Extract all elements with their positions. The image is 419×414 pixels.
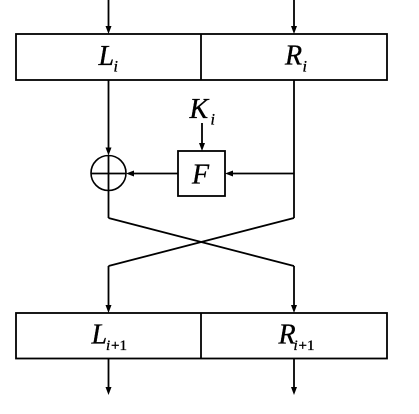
- wire: top input to Li: [108, 0, 110, 27]
- label Ki: [189, 94, 215, 129]
- arrowhead output left: [106, 387, 112, 395]
- arrowhead into XOR right: [126, 171, 134, 177]
- wire: F output to XOR: [134, 173, 178, 175]
- wire: Ri branch into F: [233, 173, 294, 175]
- XOR vertical cross stroke and wire continuing down to bend: [108, 156, 110, 219]
- arrowhead into Li+1 box: [106, 305, 112, 313]
- wire: Ri down to crossover bend: [293, 80, 295, 218]
- svg-text:L: L: [98, 41, 115, 72]
- wire: crossover diagonal left-to-right: [109, 218, 295, 266]
- svg-text:i: i: [303, 59, 307, 76]
- wire: down into Ri+1: [293, 266, 295, 306]
- divider between Li+1 and Ri+1: [200, 313, 202, 359]
- arrowhead into Ri+1 box: [291, 305, 297, 313]
- svg-text:L: L: [91, 320, 108, 351]
- box F (round function): [178, 151, 225, 196]
- svg-text:K: K: [189, 94, 210, 125]
- wire: Ki down to F: [201, 123, 203, 144]
- svg-text:i: i: [211, 112, 215, 129]
- wire: crossover diagonal right-to-left: [109, 218, 295, 266]
- label Li: [98, 41, 118, 76]
- divider between Li and Ri: [200, 34, 202, 80]
- wire: top input to Ri: [293, 0, 295, 27]
- XOR gate circle: [91, 156, 126, 191]
- arrowhead into XOR top: [106, 148, 112, 156]
- label Li+1: [91, 320, 127, 355]
- box Li/Ri register: [16, 34, 387, 80]
- XOR horizontal cross stroke: [91, 173, 126, 175]
- svg-text:F: F: [191, 160, 210, 191]
- wire: Li+1 output: [108, 359, 110, 389]
- label Ri: [284, 41, 307, 76]
- arrowhead into Ri box: [291, 26, 297, 34]
- arrowhead into F box top: [199, 143, 205, 151]
- arrowhead output right: [291, 387, 297, 395]
- wire: Ri+1 output: [293, 359, 295, 389]
- svg-text:i: i: [106, 338, 110, 354]
- wire: Li down to XOR: [108, 80, 110, 149]
- label Ri+1: [278, 320, 315, 355]
- svg-text:i: i: [294, 338, 298, 354]
- wire: down into Li+1: [108, 266, 110, 306]
- svg-text:i: i: [114, 59, 118, 76]
- svg-text:R: R: [284, 41, 302, 72]
- box Li+1/Ri+1 register: [16, 313, 387, 359]
- arrowhead into Li box: [106, 26, 112, 34]
- svg-text:+1: +1: [111, 338, 127, 354]
- svg-text:+1: +1: [299, 338, 315, 354]
- arrowhead into F box right: [225, 171, 233, 177]
